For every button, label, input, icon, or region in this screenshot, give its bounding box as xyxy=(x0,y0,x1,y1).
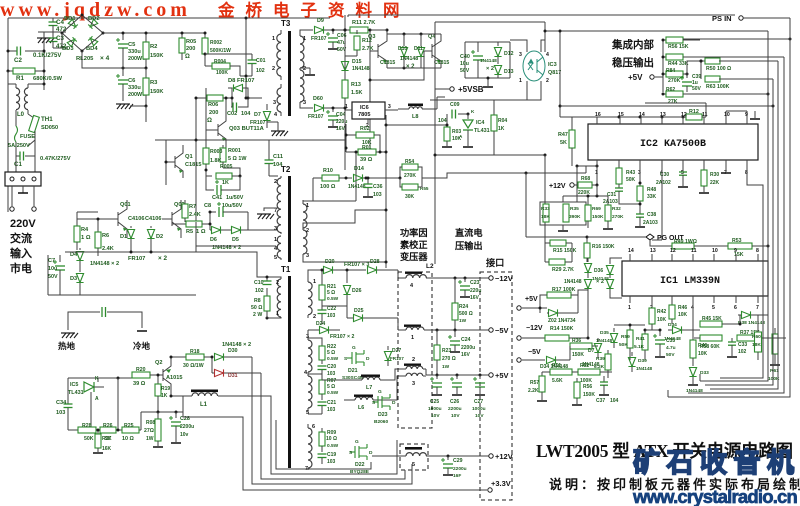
IC2 pin 7 xyxy=(725,160,727,168)
wire comparator rails xyxy=(587,296,589,338)
IC2 pin 2 xyxy=(618,160,620,168)
wire bundle v3 xyxy=(710,61,778,389)
svg-text:R25: R25 xyxy=(124,423,134,429)
svg-text:R5: R5 xyxy=(186,229,193,235)
diode D10 xyxy=(403,42,405,46)
wire C31 join xyxy=(619,198,640,204)
svg-text:150K: 150K xyxy=(583,392,595,398)
wire xyxy=(248,97,262,99)
resistor R21 5ohm 0.5W xyxy=(321,270,323,285)
IC1 pin 1 xyxy=(629,296,631,303)
svg-text:输入: 输入 xyxy=(10,246,32,260)
wire bundle v5 xyxy=(668,18,790,397)
capacitor C22 103 xyxy=(321,306,323,310)
svg-text:D4: D4 xyxy=(70,252,78,258)
wire T1 bottom section box xyxy=(276,420,371,469)
IC2 pin 3 xyxy=(639,160,641,168)
IC1 pin 9 xyxy=(735,254,737,261)
wire xyxy=(43,32,45,90)
svg-text:16V: 16V xyxy=(336,126,346,132)
IC2 pin 12 xyxy=(682,117,684,124)
IC1 pin 14 xyxy=(629,254,631,261)
svg-text:功率因: 功率因 xyxy=(400,227,428,238)
svg-text:0.47K/275V: 0.47K/275V xyxy=(40,156,71,162)
transistor Q1 C1815 xyxy=(174,156,176,168)
svg-text:TH1: TH1 xyxy=(41,116,53,123)
svg-text:R03: R03 xyxy=(452,129,461,135)
resistor R08 27ohm 1W xyxy=(157,412,159,419)
svg-text:D: D xyxy=(366,356,370,362)
IC2 pin 9 xyxy=(746,111,748,124)
wire y125 feed xyxy=(386,124,447,126)
svg-text:3: 3 xyxy=(306,334,309,340)
resistor R63 100K xyxy=(700,61,702,79)
svg-text:1N4148: 1N4148 xyxy=(564,279,582,285)
svg-text:R32: R32 xyxy=(612,206,621,212)
svg-text:2: 2 xyxy=(272,66,275,72)
svg-text:150K: 150K xyxy=(150,89,163,95)
svg-text:R47: R47 xyxy=(558,132,568,138)
svg-text:39 Ω: 39 Ω xyxy=(133,381,146,387)
svg-text:D22: D22 xyxy=(355,462,365,468)
terminal +3.3V xyxy=(488,488,492,492)
wire bus above IC2 xyxy=(560,116,683,118)
svg-text:2200u: 2200u xyxy=(448,406,462,412)
mosfet D23 B2060 xyxy=(373,394,390,410)
resistor R24 500ohm xyxy=(454,278,456,303)
resistor R003 1.8K xyxy=(205,145,207,148)
wire bundle v6 pin8 xyxy=(720,168,763,378)
svg-text:+5VSB: +5VSB xyxy=(458,85,484,94)
capacitor C02 104 xyxy=(231,98,232,107)
wire feedback riser xyxy=(117,378,119,427)
ground hot xyxy=(61,332,75,334)
wire Q3Q4 bases cross xyxy=(370,51,424,80)
svg-text:C30: C30 xyxy=(660,172,669,178)
wire pins 10-9 tie and ground xyxy=(726,110,747,112)
svg-text:−5V: −5V xyxy=(528,349,541,356)
svg-text:D24: D24 xyxy=(316,321,325,327)
resistor R49 1ohm xyxy=(650,240,672,246)
resistor R30 22K xyxy=(703,168,705,170)
svg-text:102: 102 xyxy=(738,349,747,355)
bridge diode BD2 xyxy=(88,19,98,29)
transistor Q03 BUT11A xyxy=(217,124,219,136)
svg-text:市电: 市电 xyxy=(10,261,32,275)
svg-text:D6: D6 xyxy=(210,237,217,243)
resistor R29 2.7K xyxy=(549,259,565,265)
wire T2 sec pin2 run xyxy=(303,210,386,228)
diode D12 xyxy=(497,42,499,46)
svg-text:变压器: 变压器 xyxy=(400,251,428,262)
wire TL431 loop left xyxy=(67,378,69,404)
ground xyxy=(22,186,24,193)
svg-text:150K: 150K xyxy=(150,53,163,59)
resistor R18 30ohm 1W xyxy=(171,356,186,358)
ground tap T2 pin7 xyxy=(264,208,278,211)
optocoupler IC3 Q817 xyxy=(523,51,545,81)
svg-text:B2060: B2060 xyxy=(374,419,388,425)
wire bottom rail xyxy=(65,251,196,253)
wire driver emitters xyxy=(387,67,441,69)
svg-text:IC6: IC6 xyxy=(360,105,369,111)
terminal L xyxy=(11,186,13,206)
IC2 pin 6 xyxy=(703,160,705,168)
IC2 pin 14 xyxy=(640,117,642,124)
svg-text:D: D xyxy=(392,400,396,406)
svg-text:R3: R3 xyxy=(150,80,158,86)
IC1 pin 4 xyxy=(692,296,694,303)
svg-text:G: G xyxy=(378,389,382,395)
wire rail x146 down xyxy=(145,105,147,107)
svg-text:8: 8 xyxy=(756,248,759,254)
resistor R15 150K xyxy=(550,240,566,246)
svg-text:1: 1 xyxy=(272,36,275,42)
svg-text:R18: R18 xyxy=(190,349,200,355)
svg-text:1: 1 xyxy=(313,279,316,285)
svg-text:BD4: BD4 xyxy=(86,46,98,52)
svg-text:18K: 18K xyxy=(541,214,550,220)
svg-text:1: 1 xyxy=(303,36,306,42)
inductor L7 xyxy=(347,379,362,381)
svg-text:10u: 10u xyxy=(48,266,57,272)
capacitor C31 2A103 xyxy=(618,184,620,188)
diode D3 xyxy=(79,266,81,272)
svg-text:C10: C10 xyxy=(254,280,264,286)
svg-text:10: 10 xyxy=(712,248,718,254)
diode D34b xyxy=(673,326,682,333)
svg-text:R44 33K: R44 33K xyxy=(668,61,689,67)
svg-text:1N4148: 1N4148 xyxy=(636,366,653,371)
svg-text:5 Ω: 5 Ω xyxy=(327,350,335,356)
svg-text:1W: 1W xyxy=(146,436,154,442)
svg-text:7: 7 xyxy=(756,305,759,311)
svg-text:R12: R12 xyxy=(689,109,699,115)
svg-text:SD050: SD050 xyxy=(41,125,58,131)
svg-text:D34: D34 xyxy=(668,322,677,328)
bridge wires xyxy=(62,15,103,51)
wire IC1 bottoms xyxy=(614,324,630,326)
svg-text:C27: C27 xyxy=(474,399,483,405)
wire bundle stubs xyxy=(699,374,701,381)
svg-text:C01: C01 xyxy=(256,58,266,64)
svg-text:500 Ω: 500 Ω xyxy=(459,311,473,317)
wire pin3 stub xyxy=(307,330,309,334)
svg-text:3: 3 xyxy=(519,52,522,58)
resistor R48 33K xyxy=(639,168,641,186)
svg-text:1N4148: 1N4148 xyxy=(400,56,418,62)
resistor R53 15K xyxy=(728,243,752,249)
diode D1 FR107 xyxy=(130,226,132,228)
capacitor C36 103 xyxy=(367,178,369,184)
svg-text:IC1 LM339N: IC1 LM339N xyxy=(660,276,720,287)
capacitor C8 10u/50V xyxy=(210,211,216,213)
svg-text:270K: 270K xyxy=(404,173,416,179)
output winding 1 xyxy=(404,325,421,327)
svg-text:R48: R48 xyxy=(647,187,656,193)
svg-text:16K: 16K xyxy=(102,446,112,452)
AC plug connector xyxy=(5,172,41,186)
wire riser x663 xyxy=(662,40,664,92)
wire T2 sec pin3 xyxy=(303,258,386,262)
svg-text:5.1K: 5.1K xyxy=(634,344,645,350)
svg-text:+5V: +5V xyxy=(495,371,509,380)
svg-text:103: 103 xyxy=(327,371,336,377)
svg-text:FR107: FR107 xyxy=(390,356,404,361)
svg-text:Q03 BUT11A: Q03 BUT11A xyxy=(229,126,265,132)
svg-text:1W: 1W xyxy=(459,318,467,324)
svg-text:R43: R43 xyxy=(626,170,635,176)
terminal -5V xyxy=(489,328,493,332)
resistor R40 10K xyxy=(692,303,694,340)
wire row y196 xyxy=(563,195,608,197)
svg-text:10 Ω: 10 Ω xyxy=(326,436,337,442)
svg-text:1000u: 1000u xyxy=(428,406,442,412)
svg-text:103: 103 xyxy=(327,313,336,319)
svg-text:10K: 10K xyxy=(698,351,708,357)
svg-text:× 2: × 2 xyxy=(406,64,415,70)
wire x345 junction dots xyxy=(344,29,347,32)
svg-text:9: 9 xyxy=(734,248,737,254)
wire bridge bottom rail xyxy=(82,51,100,68)
svg-text:R46: R46 xyxy=(678,305,687,311)
resistor R002 500K 1W xyxy=(204,33,206,38)
svg-text:100 Ω: 100 Ω xyxy=(320,184,336,190)
svg-text:C36: C36 xyxy=(373,184,383,190)
svg-text:R20: R20 xyxy=(136,367,146,373)
svg-text:2200u: 2200u xyxy=(180,424,194,430)
svg-text:C8: C8 xyxy=(204,203,211,209)
svg-text:0.1K/275V: 0.1K/275V xyxy=(33,53,61,59)
resistor R11 2.7K xyxy=(345,29,350,31)
wire T3 sec pin1 xyxy=(300,30,313,36)
wire TL431 anode down xyxy=(90,392,92,398)
resistor R41 5.1K xyxy=(644,330,646,334)
svg-text:R50 100 Ω: R50 100 Ω xyxy=(706,66,731,72)
capacitor C21 103 xyxy=(318,401,327,403)
diode D25 xyxy=(354,314,363,321)
svg-text:3: 3 xyxy=(412,381,415,387)
ground xyxy=(562,225,564,230)
resistor R004 100K xyxy=(205,65,212,67)
svg-text:D36: D36 xyxy=(594,268,603,274)
svg-text:R1: R1 xyxy=(16,75,24,82)
capacitor C19 103 xyxy=(318,453,327,455)
wire bottom loop B xyxy=(252,357,412,484)
svg-text:4: 4 xyxy=(546,52,549,58)
svg-text:C21: C21 xyxy=(327,400,336,406)
transistor Q2 A1015 xyxy=(162,369,164,381)
svg-text:10K: 10K xyxy=(678,312,688,318)
diode D5 xyxy=(232,226,241,233)
IC1 pin 12 xyxy=(671,254,673,261)
svg-text:FR107 × 2: FR107 × 2 xyxy=(330,334,354,340)
resistor R4 1ohm xyxy=(76,222,78,226)
svg-text:Z02 1N4734: Z02 1N4734 xyxy=(548,318,576,324)
svg-text:R15 150K: R15 150K xyxy=(553,248,577,254)
wire bus x386 xyxy=(385,115,387,268)
svg-text:R56 15K: R56 15K xyxy=(668,44,689,50)
svg-text:103: 103 xyxy=(56,410,65,416)
svg-text:104: 104 xyxy=(610,398,619,404)
capacitor C33 102 xyxy=(731,338,733,342)
svg-text:102: 102 xyxy=(256,68,265,74)
svg-text:50V: 50V xyxy=(48,274,58,280)
svg-text:−12V: −12V xyxy=(526,325,543,332)
svg-text:150K: 150K xyxy=(592,214,604,220)
IC1 pin 5 xyxy=(713,296,715,303)
svg-text:16V: 16V xyxy=(461,352,471,358)
svg-text:D15: D15 xyxy=(352,59,362,65)
svg-text:R6: R6 xyxy=(102,233,109,239)
capacitor C10 102 xyxy=(266,277,268,281)
resistor R69 150K xyxy=(587,196,589,205)
svg-text:14: 14 xyxy=(639,112,645,118)
T2 primary winding xyxy=(280,176,282,178)
resistor R58 60K xyxy=(700,335,722,341)
wire R004 C01 top xyxy=(205,53,252,55)
svg-text:× 4: × 4 xyxy=(100,55,110,62)
svg-text:1.5K: 1.5K xyxy=(351,90,362,96)
svg-text:R42: R42 xyxy=(657,309,666,315)
T2 secondary winding xyxy=(302,200,304,204)
svg-text:0.5W: 0.5W xyxy=(327,356,339,362)
svg-text:1N4148: 1N4148 xyxy=(596,338,613,343)
svg-text:103: 103 xyxy=(327,407,336,413)
svg-text:2: 2 xyxy=(412,357,415,363)
svg-text:C1815: C1815 xyxy=(185,162,201,168)
wire TL431 loop top xyxy=(68,377,132,379)
svg-text:1 Ω: 1 Ω xyxy=(196,229,206,235)
capacitor C5 330u xyxy=(122,33,124,40)
IC1 pin 7 xyxy=(757,296,759,303)
transistor Q02 C4106 xyxy=(171,212,173,226)
diode D26 xyxy=(346,270,348,283)
svg-text:R005: R005 xyxy=(220,164,233,170)
diode D35 xyxy=(613,328,615,332)
wire T3 pin2 gnd xyxy=(309,68,311,74)
svg-text:IC2 KA7500B: IC2 KA7500B xyxy=(640,139,706,150)
wire right risers xyxy=(683,38,790,40)
svg-text:D9: D9 xyxy=(317,18,324,24)
svg-text:104: 104 xyxy=(241,111,251,117)
wire -12V rail xyxy=(430,277,491,279)
capacitor C35 4.7u xyxy=(659,330,661,336)
svg-text:L7: L7 xyxy=(366,385,372,391)
resistor R84 270K xyxy=(663,73,666,75)
svg-text:5A/250V: 5A/250V xyxy=(8,143,30,149)
svg-text:R11 2.7K: R11 2.7K xyxy=(352,20,375,26)
svg-text:C02: C02 xyxy=(227,111,237,117)
resistor R46 10K xyxy=(671,303,673,305)
svg-text:10V: 10V xyxy=(475,413,484,419)
svg-text:R8: R8 xyxy=(254,298,261,304)
wire top bus y15 xyxy=(348,14,735,16)
wire right links xyxy=(739,315,741,324)
wire pg row xyxy=(540,236,587,238)
svg-text:Q3: Q3 xyxy=(368,34,375,40)
svg-text:IC5: IC5 xyxy=(70,382,78,388)
wire bottom loop C xyxy=(261,373,405,479)
svg-text:R59: R59 xyxy=(621,334,630,340)
svg-text:D8 FR107: D8 FR107 xyxy=(228,78,254,84)
svg-text:1N4148: 1N4148 xyxy=(348,184,366,190)
svg-text:R16 150K: R16 150K xyxy=(592,244,615,250)
svg-text:FR107: FR107 xyxy=(308,114,324,120)
resistor R2 150K xyxy=(145,33,147,42)
svg-text:30 Ω/1W: 30 Ω/1W xyxy=(183,363,204,369)
svg-text:D35: D35 xyxy=(600,330,609,336)
svg-text:1K: 1K xyxy=(498,126,505,132)
svg-text:C35: C35 xyxy=(666,338,675,344)
svg-text:1N4148: 1N4148 xyxy=(352,66,370,72)
wire bus C to R12 xyxy=(645,102,706,104)
svg-text:5 Ω: 5 Ω xyxy=(327,290,335,296)
svg-text:3: 3 xyxy=(388,104,391,110)
svg-text:R62: R62 xyxy=(666,87,675,93)
capacitor C04 220u 16V xyxy=(332,108,334,112)
wire R54 node to +12V rail xyxy=(422,173,586,178)
svg-text:16V: 16V xyxy=(470,295,480,301)
svg-text:BD3: BD3 xyxy=(62,46,74,52)
resistor R25 10ohm xyxy=(116,429,122,431)
svg-text:1: 1 xyxy=(411,335,414,341)
capacitor C24 2200u xyxy=(454,330,456,337)
capacitor C4 xyxy=(52,18,54,22)
svg-text:R02: R02 xyxy=(360,126,370,132)
wire pin4 down xyxy=(661,168,663,240)
wire bridge plus rail xyxy=(103,32,205,34)
wire x526 down xyxy=(525,173,527,237)
svg-text:R36: R36 xyxy=(572,338,581,344)
terminal +5VSB xyxy=(450,87,454,91)
capacitor C23 220u xyxy=(464,278,466,282)
resistor R12b 2.7K xyxy=(686,114,702,120)
svg-text:接口: 接口 xyxy=(486,257,504,268)
svg-text:C24: C24 xyxy=(461,337,471,343)
svg-text:10 Ω: 10 Ω xyxy=(122,436,134,442)
svg-text:200: 200 xyxy=(209,110,218,116)
svg-text:39 Ω: 39 Ω xyxy=(360,157,373,163)
svg-text:C41: C41 xyxy=(212,195,222,201)
svg-text:C09: C09 xyxy=(450,102,460,108)
svg-text:D13: D13 xyxy=(504,69,514,75)
svg-text:Q01: Q01 xyxy=(120,202,131,208)
resistor R6 2.4K xyxy=(97,226,99,232)
svg-text:12: 12 xyxy=(670,248,676,254)
svg-text:C19: C19 xyxy=(327,452,336,458)
wire L8 up xyxy=(436,97,438,109)
T1 primary winding xyxy=(262,277,281,279)
zener Z02 1N4734 xyxy=(539,308,541,313)
svg-text:50K: 50K xyxy=(84,436,94,442)
inductor L1 xyxy=(171,395,192,397)
svg-text:270K: 270K xyxy=(668,78,681,84)
svg-text:5: 5 xyxy=(274,255,277,261)
diode D4 xyxy=(79,248,81,250)
diode D30 xyxy=(215,353,224,360)
ground cold xyxy=(137,330,147,332)
resistor R57 2.2K xyxy=(541,372,543,376)
svg-text:1: 1 xyxy=(306,203,309,209)
svg-text:C1815: C1815 xyxy=(380,60,395,66)
svg-text:R01: R01 xyxy=(362,145,372,151)
capacitor C01 102 xyxy=(251,54,253,60)
svg-text:FR107 × 3: FR107 × 3 xyxy=(344,262,369,268)
IC1 pin 6 xyxy=(735,296,737,303)
capacitor C25 1000u xyxy=(436,375,438,379)
choke L0 xyxy=(15,84,17,88)
